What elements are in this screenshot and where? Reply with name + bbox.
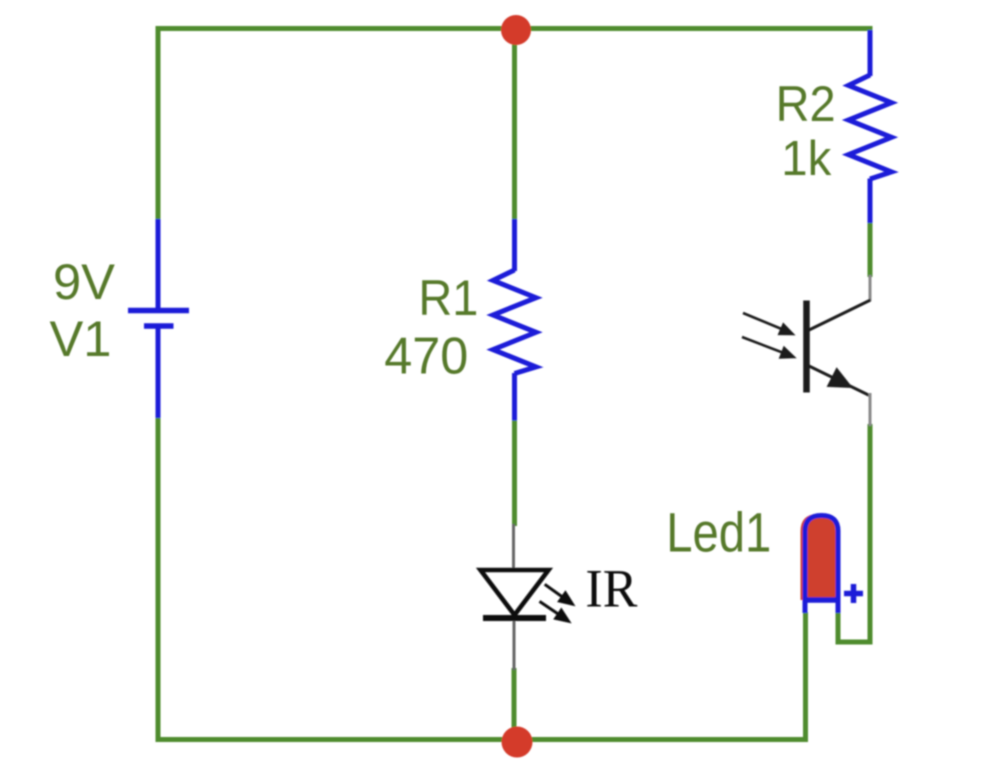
svg-text:IR: IR [585, 559, 637, 619]
phototransistor Q1 emitter arrow [827, 367, 853, 388]
IR led triangle [481, 570, 549, 615]
node junction bottom [502, 727, 533, 758]
led Led1 red body [801, 514, 836, 600]
plus sign [844, 584, 863, 603]
wire led1 cathode leg to right rail [838, 612, 870, 642]
led Led1 cathode blue stub [836, 599, 841, 613]
wire led1 anode leg [803, 612, 808, 742]
phototransistor Q1 bar [803, 301, 810, 393]
wire top rail [156, 26, 873, 31]
wire right rail emitter to led [868, 424, 873, 645]
wire R1 to IR led [512, 419, 517, 526]
battery V1 bottom lead [156, 327, 161, 418]
phototransistor light arrow 2 [742, 337, 794, 357]
phototransistor light arrow 1 [743, 313, 793, 334]
wire right rail top stub [868, 26, 873, 32]
phototransistor Q1 emitter diagonal [808, 366, 871, 397]
phototransistor Q1 collector diagonal [808, 300, 871, 331]
wire bottom rail [156, 737, 809, 742]
IR led light arrow 2 [540, 601, 569, 621]
svg-text:1k: 1k [781, 132, 831, 186]
svg-text:9V: 9V [53, 254, 116, 310]
battery V1 long plate [128, 308, 189, 314]
svg-text:V1: V1 [50, 311, 112, 367]
resistor R1 [493, 219, 536, 421]
battery V1 top lead [156, 219, 161, 309]
IR led bottom stub [513, 621, 516, 670]
led Led1 blue outline [805, 516, 838, 613]
svg-text:R1: R1 [418, 270, 478, 326]
phototransistor Q1 collector stub [869, 275, 872, 301]
wire IR led to bottom rail [512, 668, 517, 742]
led Led1 bottom bar [803, 597, 840, 603]
svg-text:470: 470 [384, 328, 468, 386]
resistor R2 [849, 30, 892, 223]
wire R2 to phototransistor [868, 221, 873, 277]
wire mid branch top [512, 28, 517, 221]
led Led1 anode blue stub [803, 599, 808, 613]
wire left rail lower [156, 416, 161, 742]
wire left rail upper [156, 26, 161, 221]
IR led top stub [512, 524, 515, 570]
phototransistor Q1 emitter stub [869, 393, 872, 426]
node junction top [501, 15, 531, 45]
svg-text:R2: R2 [776, 76, 836, 132]
IR led light arrow 1 [545, 584, 573, 604]
IR led cathode bar [483, 615, 546, 621]
svg-text:Led1: Led1 [666, 501, 771, 564]
battery V1 short plate [144, 323, 174, 329]
